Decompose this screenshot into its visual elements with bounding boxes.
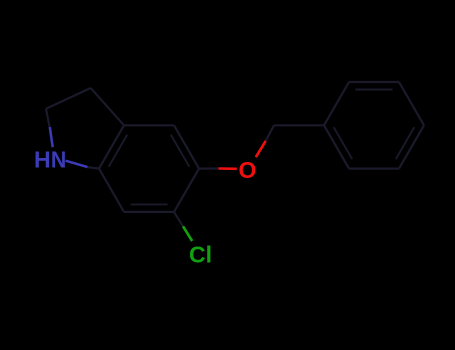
svg-text:H: H xyxy=(34,147,51,173)
svg-text:O: O xyxy=(239,157,257,183)
svg-text:Cl: Cl xyxy=(189,241,212,267)
svg-text:N: N xyxy=(51,147,66,173)
